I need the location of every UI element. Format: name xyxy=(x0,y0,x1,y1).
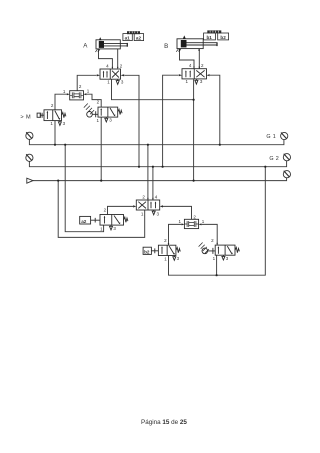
sensor label box a1 xyxy=(123,34,132,41)
wire valve B right pilot to G1 bus xyxy=(210,75,220,145)
port labels AND valve 1 xyxy=(63,84,90,94)
connector plug G1 xyxy=(281,132,288,139)
svg-text:G 1: G 1 xyxy=(266,134,276,140)
wire bus G1 line xyxy=(29,139,284,144)
junction on G2 bus at valve B left pilot xyxy=(162,166,164,168)
manual start valve 3/2 xyxy=(37,110,66,126)
wire AND2 left input to valve port2 xyxy=(169,224,182,245)
port labels valve A xyxy=(106,63,124,84)
wire manual valve port2 to AND1 left input xyxy=(55,94,67,110)
two-pressure AND valve 2 xyxy=(182,219,202,228)
wire valve B port4 to cylinder B left port xyxy=(180,49,195,69)
wire memory valve right pilot to AND2 output xyxy=(163,206,192,219)
junction on G2 bus at memory valve port4 xyxy=(152,166,154,168)
wire roller valve b port1 to bottom line xyxy=(216,255,218,275)
svg-text:b1: b1 xyxy=(207,35,213,40)
port labels sensor valve b2 xyxy=(164,238,179,261)
two-pressure AND valve 1 xyxy=(67,91,86,100)
port labels memory valve xyxy=(141,194,160,216)
wire valve B left pilot to G2 bus xyxy=(163,75,179,167)
roller limit valve a 3/2 xyxy=(84,104,122,122)
svg-text:a2: a2 xyxy=(136,35,142,40)
valve B 4/2 double pilot xyxy=(179,67,210,85)
svg-text:a2: a2 xyxy=(81,219,87,224)
wire valve B port2 to cylinder B right port xyxy=(198,49,200,69)
wire roller valve a port1 to air bus xyxy=(100,117,102,181)
sensor label box b1 xyxy=(204,33,216,40)
ruler scale of cylinder B xyxy=(207,30,221,33)
connector plug G2 xyxy=(283,154,290,161)
junction on bottom line at roller valve b xyxy=(216,274,218,276)
junction valve A B common supply xyxy=(193,99,195,101)
roller limit valve b 3/2 xyxy=(199,243,240,261)
memory valve 4/2 central xyxy=(133,198,163,215)
wire air bus drop to memory valve port1 xyxy=(58,181,145,238)
ruler scale of cylinder A xyxy=(127,31,140,34)
connector plug left 1 xyxy=(26,132,33,139)
wire manual valve port1 to G1 bus xyxy=(54,121,56,145)
cylinder B xyxy=(176,35,217,51)
wire bus G2 line xyxy=(29,161,286,167)
junction on air bus at valves A B supply xyxy=(193,180,195,182)
svg-text:a1: a1 xyxy=(125,35,131,40)
wire bottom valves port1 to G2 bus xyxy=(169,167,266,276)
wire valve B port1 supply to air bus xyxy=(193,79,195,180)
junction on G1 bus at memory valve port2 xyxy=(147,144,149,146)
wire memory valve port2 to G1 bus xyxy=(147,145,149,200)
port labels roller valve b xyxy=(211,238,229,261)
junction on G2 bus at valve A right pilot xyxy=(138,166,140,168)
wire sensor valve port2 to memory valve left pilot xyxy=(108,206,134,214)
sensor label box b2 xyxy=(218,33,229,40)
junction on G1 bus at drop line xyxy=(64,144,66,146)
wire G1 bus drop to sensor valve port1 xyxy=(65,145,103,232)
svg-text:b2: b2 xyxy=(220,35,226,40)
port labels manual valve xyxy=(50,103,65,126)
wire valve A right pilot to G2 bus xyxy=(124,75,139,166)
wire AND1 output to valve A left pilot xyxy=(77,75,96,90)
wire valve A port1 supply xyxy=(112,79,194,100)
wire valve A port4 to cylinder A left port xyxy=(99,49,113,68)
connector plug right 3 xyxy=(283,171,290,178)
wire valve A port2 to cylinder A right port xyxy=(117,49,119,68)
connector plug left 2 xyxy=(26,154,33,161)
svg-text:B: B xyxy=(164,43,168,50)
wire bus P air supply line xyxy=(33,178,287,181)
svg-text:Página 15 de 25: Página 15 de 25 xyxy=(141,419,187,426)
sensor label box a2 xyxy=(134,34,143,41)
junction on air bus at roller valve a xyxy=(100,180,102,182)
svg-text:> M: > M xyxy=(20,115,31,121)
svg-text:b2: b2 xyxy=(144,249,150,254)
wire AND2 right input to roller valve b port2 xyxy=(201,224,217,245)
junction on G1 bus at valve B right pilot xyxy=(219,144,221,146)
valve A 4/2 double pilot xyxy=(97,67,124,85)
sensor valve a2 3/2 with label box xyxy=(80,215,128,230)
wire memory valve port4 to G2 bus xyxy=(152,167,154,200)
svg-text:G 2: G 2 xyxy=(269,156,279,162)
port labels valve B xyxy=(185,63,204,84)
sensor valve b2 3/2 with label box xyxy=(143,245,180,260)
wire AND1 right input to roller valve a port2 xyxy=(86,94,101,107)
junction on G2 bus at bottom supply riser xyxy=(264,166,266,168)
junction on G1 bus at manual valve xyxy=(54,144,56,146)
port labels sensor valve a2 xyxy=(100,207,116,231)
cylinder A xyxy=(95,37,127,52)
port labels AND valve 2 xyxy=(178,214,204,224)
port labels roller valve a xyxy=(96,100,112,124)
junction on air bus at left drop xyxy=(57,180,59,182)
compressed air source xyxy=(27,178,33,183)
